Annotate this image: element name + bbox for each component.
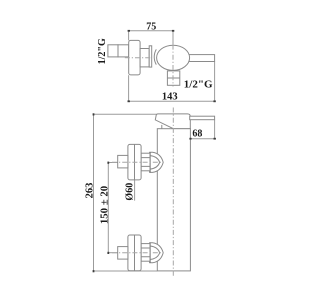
top inlet rosette: [128, 144, 141, 180]
dim 68 line: [190, 138, 214, 140]
svg-text:1/2"G: 1/2"G: [97, 38, 108, 64]
top inlet nut facets: [141, 158, 150, 167]
dim 75 right extension: [172, 31, 174, 45]
bottom inlet nut facets: [141, 248, 150, 257]
dim 150 bottom leader: [108, 252, 117, 254]
bottom inlet nipple: [118, 247, 128, 260]
svg-text:150 ± 20: 150 ± 20: [99, 186, 111, 224]
top inlet rosette edge line: [134, 144, 136, 180]
svg-text:68: 68: [192, 129, 202, 140]
dim 143 right extension: [214, 62, 216, 102]
dim 263 bottom extension: [94, 270, 158, 272]
collar (top view): [149, 46, 152, 67]
outlet 1/2G (top view): [167, 71, 179, 85]
top inlet dome (front view): [150, 152, 163, 172]
svg-text:75: 75: [146, 21, 156, 32]
dia60 extension line: [134, 180, 136, 201]
cap inner edge: [161, 125, 163, 129]
bottom inlet nut: [141, 244, 150, 262]
top inlet centerline: [112, 161, 163, 163]
dim 143 left extension: [128, 75, 130, 101]
bottom inlet dome base edge: [149, 243, 151, 264]
body ellipse (top view): [157, 45, 190, 70]
dimension endpoint dots: [93, 30, 216, 272]
dim 263 line: [93, 114, 95, 271]
flange rosette (top view): [129, 40, 140, 75]
svg-text:Ø60: Ø60: [125, 183, 136, 201]
dim 68 right extension: [214, 120, 216, 139]
svg-text:143: 143: [162, 91, 178, 102]
top inlet dome inner arc: [150, 156, 160, 170]
bottom inlet rosette: [128, 235, 141, 271]
dim 75 line: [129, 30, 173, 32]
front view vertical centerline: [172, 108, 174, 277]
bottom inlet rosette edge line: [134, 235, 136, 271]
wall pipe nipple segment 2 (top view): [118, 45, 129, 57]
wall pipe nipple segment 1 (top view): [108, 45, 118, 57]
ball joint arc (top view): [154, 49, 156, 64]
bottom inlet dome inner arc: [150, 246, 160, 260]
top view horizontal centerline: [125, 57, 152, 59]
bottom inlet dome (front view): [150, 243, 163, 263]
top inlet nipple: [118, 155, 128, 168]
bottom inlet centerline: [112, 252, 163, 254]
top inlet nut: [141, 153, 150, 171]
svg-text:1/2"G: 1/2"G: [184, 79, 213, 91]
outlet thread line (top view): [167, 77, 179, 79]
dim 150 line: [107, 163, 109, 253]
dim 143 line: [129, 100, 215, 102]
lever rod (top view): [185, 55, 215, 62]
union nut (top view): [140, 49, 149, 67]
top inlet dome base edge: [149, 152, 151, 173]
dim 263 top extension: [94, 113, 157, 115]
handle cap (front view): [155, 114, 190, 129]
lever rod (front view): [190, 116, 215, 120]
dim 75 left extension: [128, 31, 130, 41]
dim 150 top leader: [108, 162, 117, 164]
top view vertical centerline: [172, 45, 174, 87]
body (front view): [157, 129, 190, 271]
svg-text:263: 263: [84, 183, 95, 199]
